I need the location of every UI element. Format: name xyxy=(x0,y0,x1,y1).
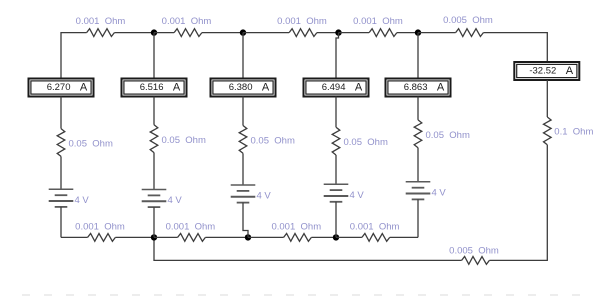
svg-text:0.005 Ohm: 0.005 Ohm xyxy=(443,15,493,26)
resistor R3 0.001 Ohm (top rail 3) xyxy=(289,29,317,37)
wire branch 3 top xyxy=(242,33,244,79)
wire xyxy=(60,156,62,189)
svg-text:A: A xyxy=(566,65,574,77)
wire xyxy=(417,97,419,120)
node junction bottom branch3 xyxy=(245,234,251,240)
svg-text:0.001 Ohm: 0.001 Ohm xyxy=(162,16,212,27)
wire xyxy=(418,32,456,34)
wire xyxy=(336,236,362,238)
resistor R4 0.001 Ohm (top rail 4) xyxy=(369,29,397,37)
resistor R9 0.001 Ohm (bottom rail 4) xyxy=(362,234,390,242)
resistor R2 0.001 Ohm (top rail 2) xyxy=(174,29,202,37)
node junction bottom branch2 xyxy=(151,234,157,240)
svg-text:0.05 Ohm: 0.05 Ohm xyxy=(426,130,470,141)
svg-text:0.001 Ohm: 0.001 Ohm xyxy=(166,221,216,232)
svg-text:0.05 Ohm: 0.05 Ohm xyxy=(162,135,206,146)
wire xyxy=(397,32,418,34)
svg-text:A: A xyxy=(437,82,445,94)
wire xyxy=(248,236,284,238)
svg-text:0.005 Ohm: 0.005 Ohm xyxy=(449,245,499,256)
resistor internal 0.05 Ohm branch 2 xyxy=(150,125,158,153)
wire top rail segment 1 xyxy=(61,32,87,34)
svg-text:0.001 Ohm: 0.001 Ohm xyxy=(76,16,126,27)
node junction bottom branch4 xyxy=(333,234,339,240)
wire branch 4 bottom xyxy=(335,202,337,238)
svg-text:4 V: 4 V xyxy=(75,195,90,206)
svg-text:6.380: 6.380 xyxy=(229,82,253,93)
resistor internal 0.05 Ohm branch 4 xyxy=(332,127,340,155)
ammeter M5 reading 6.863 A xyxy=(386,79,451,97)
svg-text:0.1 Ohm: 0.1 Ohm xyxy=(554,127,593,138)
wire xyxy=(483,32,547,34)
svg-text:4 V: 4 V xyxy=(168,195,183,206)
battery V1 4 V xyxy=(49,188,74,190)
wire xyxy=(317,32,339,34)
wire xyxy=(242,153,244,185)
wire branch 2 bottom xyxy=(153,207,155,237)
svg-text:4 V: 4 V xyxy=(350,190,365,201)
resistor R5 0.005 Ohm (top right) xyxy=(456,29,484,37)
ammeter M3 reading 6.380 A xyxy=(211,79,276,97)
svg-text:0.05 Ohm: 0.05 Ohm xyxy=(69,139,113,150)
node junction top branch5 xyxy=(415,29,421,35)
wire xyxy=(153,153,155,190)
resistor R11 0.1 Ohm (load) xyxy=(544,117,552,145)
resistor R1 0.001 Ohm (top rail 1) xyxy=(87,29,115,37)
svg-text:A: A xyxy=(173,82,181,94)
battery V3 4 V xyxy=(231,184,256,186)
wire branch 5 top xyxy=(417,33,419,79)
svg-text:6.863: 6.863 xyxy=(404,82,428,93)
resistor R10 0.005 Ohm (bottom return) xyxy=(462,257,490,265)
wire xyxy=(339,32,370,34)
node junction top branch2 xyxy=(151,29,157,35)
wire xyxy=(205,236,248,238)
resistor R7 0.001 Ohm (bottom rail 2) xyxy=(178,234,206,242)
wire xyxy=(546,80,548,117)
resistor internal 0.05 Ohm branch 5 xyxy=(414,120,422,148)
svg-text:0.001 Ohm: 0.001 Ohm xyxy=(277,16,327,27)
wire xyxy=(154,236,178,238)
ammeter M2 reading 6.516 A xyxy=(122,79,187,97)
svg-text:A: A xyxy=(80,82,88,94)
node junction top branch3 xyxy=(240,29,246,35)
svg-text:A: A xyxy=(262,82,270,94)
wire branch 2 top xyxy=(153,33,155,79)
resistor internal 0.05 Ohm branch 1 xyxy=(57,129,65,157)
wire xyxy=(60,97,62,129)
svg-text:0.001 Ohm: 0.001 Ohm xyxy=(350,221,400,232)
wire branch 1 top (from rail corner) xyxy=(60,32,62,79)
svg-text:-32.52: -32.52 xyxy=(529,65,556,76)
svg-text:6.516: 6.516 xyxy=(140,82,164,93)
wire right branch top xyxy=(546,32,548,62)
wire xyxy=(417,148,419,182)
wire xyxy=(335,155,337,184)
decorative: none xyxy=(22,294,580,296)
wire xyxy=(154,32,174,34)
wire xyxy=(115,236,154,238)
svg-text:6.270: 6.270 xyxy=(47,82,71,93)
svg-text:4 V: 4 V xyxy=(257,191,272,202)
wire branch 3 bottom jog xyxy=(243,203,248,238)
battery V2 4 V xyxy=(142,189,167,191)
wire xyxy=(153,97,155,125)
svg-text:4 V: 4 V xyxy=(432,188,447,199)
wire lower rail left xyxy=(154,237,462,260)
ammeter M4 reading 6.494 A xyxy=(304,79,369,97)
wire xyxy=(390,236,418,238)
wire branch 1 bottom xyxy=(60,207,62,238)
wire xyxy=(335,97,337,128)
wire xyxy=(242,97,244,126)
resistor R6 0.001 Ohm (bottom rail 1) xyxy=(88,234,116,242)
battery V4 4 V xyxy=(324,183,349,185)
svg-text:6.494: 6.494 xyxy=(322,82,346,93)
svg-text:0.05 Ohm: 0.05 Ohm xyxy=(251,136,295,147)
svg-text:0.001 Ohm: 0.001 Ohm xyxy=(75,221,125,232)
resistor internal 0.05 Ohm branch 3 xyxy=(239,126,247,154)
wire bottom rail segment 1 xyxy=(61,236,88,238)
svg-text:0.05 Ohm: 0.05 Ohm xyxy=(344,137,388,148)
wire right branch bottom xyxy=(546,145,548,261)
node junction top branch4 xyxy=(335,29,341,35)
svg-text:0.001 Ohm: 0.001 Ohm xyxy=(353,16,403,27)
resistor R8 0.001 Ohm (bottom rail 3) xyxy=(284,234,312,242)
svg-text:0.001 Ohm: 0.001 Ohm xyxy=(271,221,321,232)
ammeter M1 reading 6.270 A xyxy=(29,79,94,97)
wire xyxy=(311,236,336,238)
wire xyxy=(114,32,154,34)
wire xyxy=(243,32,289,34)
wire xyxy=(202,32,243,34)
svg-text:A: A xyxy=(355,82,363,94)
wire branch 5 bottom xyxy=(417,199,419,237)
battery V5 4 V xyxy=(406,181,431,183)
wire lower rail right xyxy=(489,259,548,261)
ammeter M6 reading -32.52 A xyxy=(514,62,579,80)
wire branch 4 top jog from node xyxy=(336,33,339,79)
